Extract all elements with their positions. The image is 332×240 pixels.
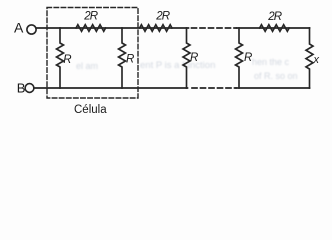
svg-text:2R: 2R [267,11,281,23]
svg-text:Célula: Célula [74,104,107,116]
svg-text:x: x [313,54,320,66]
svg-text:R: R [126,54,134,66]
svg-text:R: R [63,54,71,66]
svg-text:2R: 2R [83,11,97,23]
svg-text:2R: 2R [155,11,169,23]
svg-text:R: R [190,52,198,64]
svg-text:R: R [244,52,252,64]
svg-text:A: A [14,20,24,36]
svg-text:B: B [17,81,26,96]
